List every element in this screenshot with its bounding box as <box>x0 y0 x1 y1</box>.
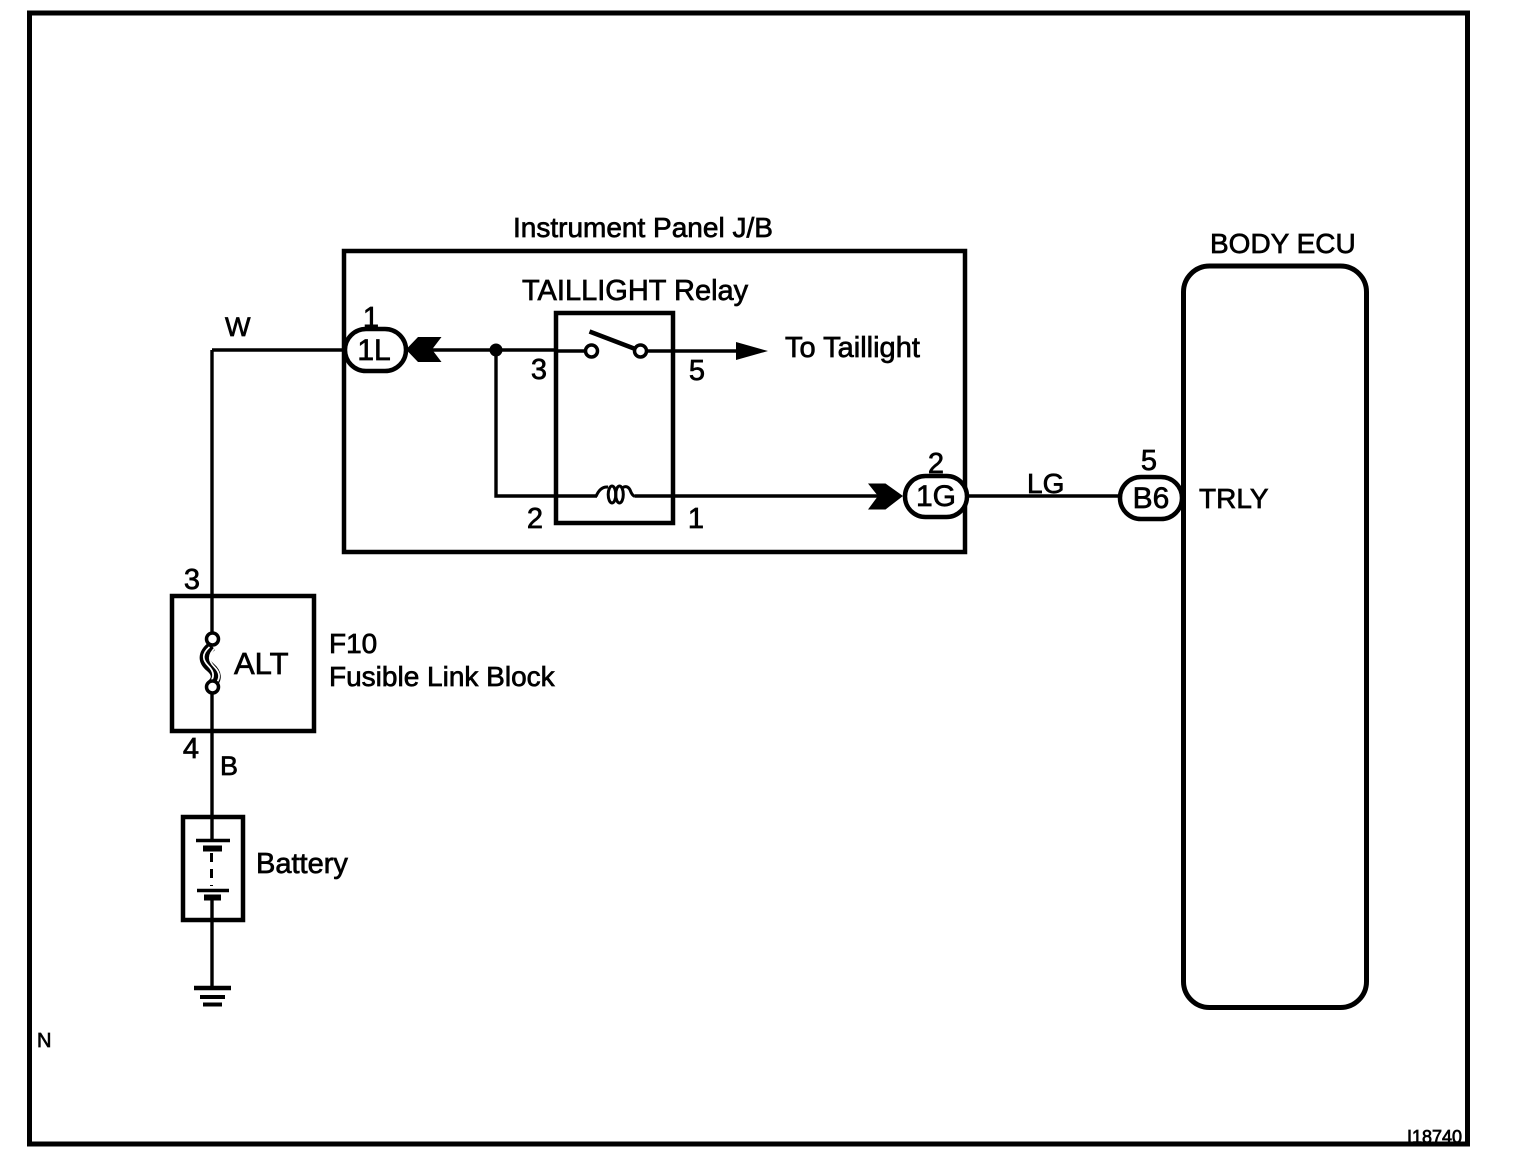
svg-text:1: 1 <box>688 503 704 535</box>
svg-text:I18740: I18740 <box>1407 1127 1462 1147</box>
svg-text:Instrument Panel J/B: Instrument Panel J/B <box>513 212 773 243</box>
arrowhead into connector 1G (notched, pointing right) <box>868 484 903 510</box>
svg-text:3: 3 <box>531 354 547 386</box>
svg-text:4: 4 <box>183 733 199 765</box>
wire left vertical riser (W wire down to fusible link block) <box>210 350 213 597</box>
svg-text:1G: 1G <box>916 480 956 513</box>
relay coil L1 <box>596 486 635 503</box>
svg-text:5: 5 <box>689 355 705 387</box>
svg-text:2: 2 <box>527 503 543 535</box>
relay switch blade <box>590 332 635 349</box>
svg-text:TRLY: TRLY <box>1199 483 1269 514</box>
wire 1L to relay pin 3 <box>430 348 556 351</box>
connector B6 <box>1120 477 1182 519</box>
svg-text:ALT: ALT <box>234 646 289 681</box>
fusible link block F10 box <box>172 596 314 731</box>
battery BAT box <box>183 817 243 920</box>
fusible link element (squiggle) <box>205 646 216 685</box>
battery internal dashed link <box>210 853 213 886</box>
ECU box "BODY ECU" <box>1184 266 1367 1008</box>
battery negative plate 2 (short thick) <box>204 895 221 901</box>
relay K1 "TAILLIGHT Relay" box <box>556 313 673 523</box>
connector 1G <box>905 476 967 517</box>
battery negative plate (short thick) <box>203 846 222 852</box>
wire W (left horizontal from vertical riser to connector 1L) <box>212 348 345 351</box>
svg-text:3: 3 <box>184 564 200 596</box>
svg-text:1L: 1L <box>357 334 390 367</box>
svg-text:To Taillight: To Taillight <box>785 332 920 364</box>
wire out of fusible link (bottom) <box>210 693 213 731</box>
junction node on wire at relay branch <box>490 344 503 357</box>
junction block "Instrument Panel J/B" box <box>344 251 965 552</box>
svg-text:LG: LG <box>1027 468 1064 499</box>
ground symbol <box>194 986 231 991</box>
wire into fusible link (top) <box>210 597 213 633</box>
svg-text:B6: B6 <box>1133 482 1170 515</box>
svg-text:B: B <box>220 751 238 781</box>
fusible link ALT terminal (bottom circle) <box>207 681 219 693</box>
svg-text:Battery: Battery <box>256 848 348 880</box>
wire LG (1G to B6) <box>967 494 1121 497</box>
svg-text:F10: F10 <box>329 628 377 659</box>
wire battery to ground <box>210 900 213 988</box>
svg-text:W: W <box>225 312 251 342</box>
arrowhead into connector 1L (notched, pointing left) <box>406 337 442 362</box>
wire relay box left edge to coil <box>556 494 597 497</box>
wire B (fusible link to battery) <box>210 731 213 840</box>
connector 1L <box>345 329 406 371</box>
wire junction down and right to relay coil pin 2 <box>496 350 556 496</box>
relay switch contact (pin 3 side) <box>586 345 598 357</box>
battery positive plate (long) <box>196 839 230 843</box>
battery positive plate 2 (long) <box>197 889 229 893</box>
svg-text:5: 5 <box>1141 445 1157 477</box>
fusible link ALT terminal (top circle) <box>207 633 219 645</box>
wire relay coil pin 1 to connector 1G <box>635 494 878 497</box>
svg-text:N: N <box>37 1030 51 1052</box>
wire relay pin 5 to taillight <box>647 349 740 352</box>
svg-text:BODY ECU: BODY ECU <box>1210 228 1356 259</box>
relay switch contact (pin 5 side) <box>635 345 647 357</box>
wire relay box left edge to contact 3 <box>556 349 585 352</box>
svg-text:Fusible Link Block: Fusible Link Block <box>329 661 556 692</box>
arrowhead to taillight (solid, pointing right) <box>736 342 768 360</box>
svg-text:TAILLIGHT Relay: TAILLIGHT Relay <box>522 275 749 307</box>
